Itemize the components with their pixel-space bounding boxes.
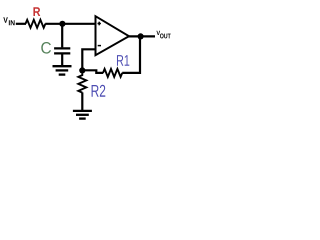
node VOUT label xyxy=(156,31,170,39)
wire op-amp inverting input stub xyxy=(82,49,95,70)
ground (bottom ground) xyxy=(73,111,92,119)
resistor R xyxy=(26,7,46,28)
node VOUT junction dot xyxy=(138,33,144,39)
wire R1 to output node xyxy=(122,36,140,73)
wire R to node A and on to op-amp + input xyxy=(45,23,95,25)
ground (capacitor ground) xyxy=(53,66,72,74)
node B junction dot xyxy=(79,67,85,73)
wire capacitor to ground xyxy=(61,54,63,66)
wire node A down to capacitor xyxy=(61,24,63,48)
node VIN label xyxy=(3,17,14,25)
wire op-amp output to VOUT xyxy=(129,35,156,37)
wire VIN to R xyxy=(16,23,26,25)
wire node B to R1 xyxy=(82,70,103,73)
capacitor C xyxy=(41,42,70,54)
node A junction dot xyxy=(59,21,65,27)
resistor R1 xyxy=(103,55,129,77)
wire R2 to ground xyxy=(81,92,83,110)
op-amp U1 xyxy=(96,16,130,55)
resistor R2 xyxy=(78,73,105,97)
